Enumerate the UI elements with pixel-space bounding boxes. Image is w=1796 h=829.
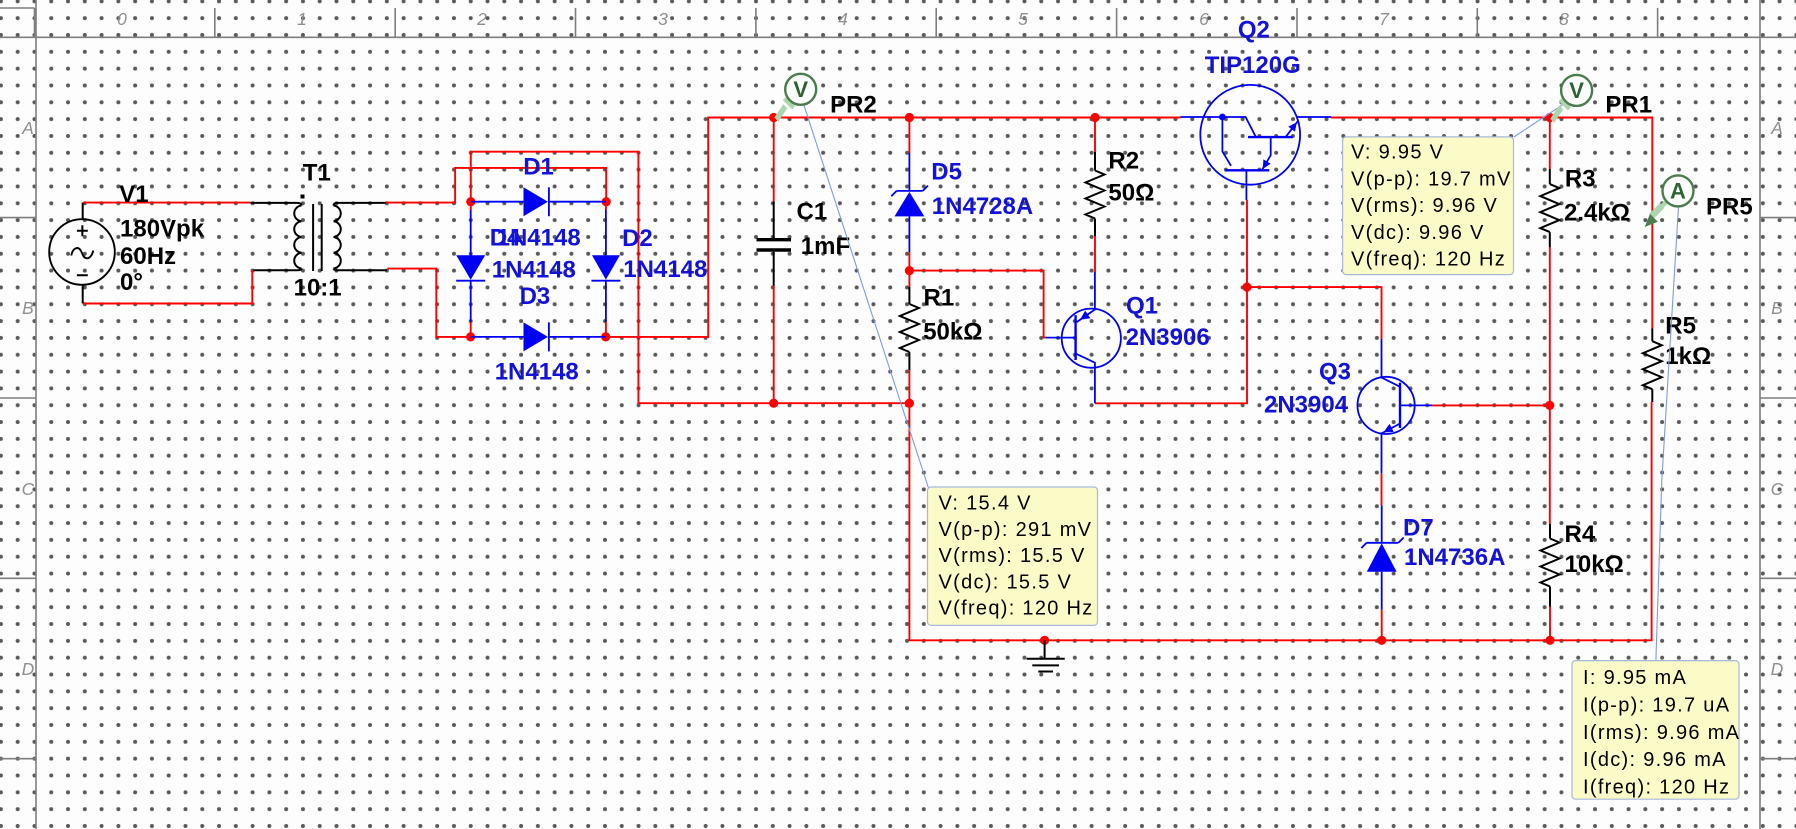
- svg-text:V(rms): 15.5 V: V(rms): 15.5 V: [939, 545, 1086, 567]
- svg-text:1kΩ: 1kΩ: [1665, 343, 1711, 370]
- svg-text:3: 3: [658, 9, 668, 29]
- svg-text:R3: R3: [1565, 166, 1596, 193]
- svg-text:PR1: PR1: [1605, 91, 1652, 118]
- svg-text:A: A: [1770, 118, 1783, 138]
- svg-text:2N3904: 2N3904: [1264, 391, 1349, 418]
- svg-text:V(p-p): 19.7 mV: V(p-p): 19.7 mV: [1351, 168, 1512, 190]
- svg-text:D5: D5: [931, 158, 962, 185]
- svg-text:B: B: [22, 298, 34, 318]
- svg-text:V(dc): 15.5 V: V(dc): 15.5 V: [939, 571, 1073, 593]
- svg-text:1: 1: [297, 9, 307, 29]
- svg-text:10:1: 10:1: [294, 274, 342, 301]
- svg-text:Q2: Q2: [1238, 17, 1270, 44]
- svg-text:0°: 0°: [120, 269, 143, 296]
- svg-text:Q1: Q1: [1126, 293, 1158, 320]
- svg-text:R1: R1: [924, 285, 955, 312]
- svg-text:T1: T1: [303, 160, 331, 187]
- svg-text:D3: D3: [520, 283, 551, 310]
- svg-text:2.4kΩ: 2.4kΩ: [1564, 200, 1630, 227]
- svg-text:D1: D1: [523, 154, 554, 181]
- svg-text:D7: D7: [1403, 515, 1434, 542]
- svg-text:V1: V1: [119, 181, 148, 208]
- svg-text:R5: R5: [1665, 313, 1696, 340]
- svg-text:180Vpk: 180Vpk: [120, 216, 205, 243]
- svg-text:1N4148: 1N4148: [495, 359, 579, 386]
- svg-text:V(rms): 9.96 V: V(rms): 9.96 V: [1351, 195, 1498, 217]
- svg-text:C: C: [1771, 479, 1784, 499]
- svg-text:C: C: [22, 479, 35, 499]
- svg-text:V: V: [793, 77, 808, 102]
- svg-text:4: 4: [838, 9, 848, 29]
- svg-text:V(p-p): 291 mV: V(p-p): 291 mV: [939, 519, 1093, 541]
- svg-text:8: 8: [1559, 9, 1569, 29]
- svg-text:I(rms): 9.96 mA: I(rms): 9.96 mA: [1583, 722, 1740, 744]
- svg-text:6: 6: [1199, 9, 1209, 29]
- svg-text:50Ω: 50Ω: [1108, 180, 1154, 207]
- svg-text:A: A: [21, 118, 34, 138]
- svg-text:I(freq): 120 Hz: I(freq): 120 Hz: [1583, 777, 1730, 799]
- svg-text:10kΩ: 10kΩ: [1565, 551, 1624, 578]
- svg-text:1N4728A: 1N4728A: [932, 193, 1033, 220]
- svg-text:C1: C1: [797, 199, 828, 226]
- svg-text:1N4148: 1N4148: [623, 256, 707, 283]
- svg-text:2N3906: 2N3906: [1126, 324, 1210, 351]
- svg-text:I(dc): 9.96 mA: I(dc): 9.96 mA: [1583, 749, 1727, 771]
- svg-text:1N4148: 1N4148: [492, 256, 576, 283]
- svg-text:PR5: PR5: [1706, 194, 1753, 221]
- svg-text:V(dc): 9.96 V: V(dc): 9.96 V: [1351, 222, 1485, 244]
- svg-text:D2: D2: [622, 225, 653, 252]
- svg-text:1N4736A: 1N4736A: [1404, 544, 1505, 571]
- svg-text:I(p-p): 19.7 uA: I(p-p): 19.7 uA: [1583, 694, 1730, 716]
- svg-text:V(freq): 120 Hz: V(freq): 120 Hz: [1351, 249, 1506, 271]
- svg-text:R2: R2: [1108, 147, 1139, 174]
- svg-text:D: D: [1771, 659, 1784, 679]
- svg-text:1mF: 1mF: [801, 233, 850, 260]
- svg-text:I: 9.95 mA: I: 9.95 mA: [1583, 667, 1687, 689]
- svg-text:B: B: [1771, 298, 1783, 318]
- svg-text:60Hz: 60Hz: [120, 243, 176, 270]
- svg-text:7: 7: [1379, 9, 1390, 29]
- svg-text:5: 5: [1018, 9, 1028, 29]
- svg-text:Q3: Q3: [1319, 359, 1351, 386]
- svg-text:1N4148: 1N4148: [497, 225, 581, 252]
- svg-text:0: 0: [117, 9, 127, 29]
- svg-text:V(freq): 120 Hz: V(freq): 120 Hz: [939, 598, 1094, 620]
- svg-text:V: 9.95 V: V: 9.95 V: [1351, 142, 1444, 164]
- svg-text:TIP120G: TIP120G: [1205, 52, 1301, 79]
- svg-text:R4: R4: [1565, 521, 1596, 548]
- svg-text:2: 2: [476, 9, 487, 29]
- svg-text:V: V: [1569, 78, 1584, 103]
- svg-text:PR2: PR2: [830, 92, 877, 119]
- svg-text:A: A: [1670, 178, 1686, 203]
- svg-text:D: D: [22, 659, 35, 679]
- svg-text:V: 15.4 V: V: 15.4 V: [939, 493, 1032, 515]
- svg-text:50kΩ: 50kΩ: [923, 319, 982, 346]
